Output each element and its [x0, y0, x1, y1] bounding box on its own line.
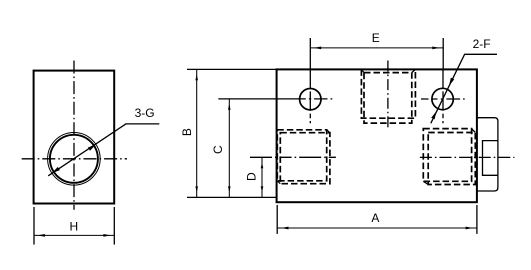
A extension line left: [276, 205, 278, 234]
block body outline (side view): [34, 71, 115, 204]
B dimension line: [196, 69, 198, 197]
side tab inner rectangle: [483, 141, 498, 176]
svg-text:B: B: [180, 128, 194, 136]
central port hidden rect outer: [361, 69, 415, 118]
lower-right port hidden rect B (offset): [428, 133, 475, 185]
svg-text:H: H: [69, 219, 78, 233]
vertical centerline (side view): [73, 61, 75, 210]
svg-text:D: D: [245, 172, 259, 181]
C dimension line: [228, 99, 230, 197]
svg-text:A: A: [371, 211, 379, 225]
D arrow top: [261, 162, 264, 168]
B arrow top: [195, 74, 198, 80]
D arrow bottom: [261, 186, 264, 192]
C arrow bottom: [228, 186, 231, 192]
B top extension line (top edge extended left): [187, 68, 277, 70]
svg-text:E: E: [372, 31, 380, 45]
A extension line right: [476, 205, 478, 234]
block body outline (front view): [277, 69, 477, 202]
svg-text:3-G: 3-G: [135, 106, 155, 120]
H arrow right: [103, 234, 111, 237]
E arrow right: [432, 47, 440, 50]
left circle horizontal centerline + C extension: [218, 98, 332, 100]
bottom reference extension line: [187, 196, 277, 198]
lower-left port corner connector: [277, 130, 330, 184]
C arrow top: [228, 104, 231, 110]
D dimension line: [261, 157, 263, 197]
horizontal centerline (side view): [22, 158, 127, 160]
svg-text:2-F: 2-F: [473, 37, 491, 51]
H arrow left: [37, 234, 45, 237]
lower-right port hidden rect A: [423, 129, 471, 182]
lower-left port horizontal centerline (with D extension): [250, 156, 336, 158]
lower-right port + tab horizontal centerline: [420, 156, 515, 158]
central port corner connectors: [361, 69, 415, 72]
central port hidden rect inner (offset): [364, 73, 412, 124]
A dimension line: [277, 227, 477, 229]
left top circle F: [300, 89, 321, 110]
H dimension line: [34, 234, 114, 236]
thread inner circle (minor dia, thick): [50, 135, 98, 183]
leader diameter line 3-G: [48, 124, 159, 176]
right top circle F: [432, 88, 453, 109]
2-F arrow lower (outside circle pointing up-right at edge): [431, 111, 436, 119]
E arrow left: [314, 47, 322, 50]
H extension line left: [33, 207, 35, 245]
right circle vertical centerline / E extension: [442, 38, 444, 69]
lower-left port hidden rect A: [277, 130, 326, 181]
left circle vertical centerline / E extension: [309, 38, 311, 69]
lower-left port hidden rect B (offset): [280, 133, 330, 184]
svg-text:C: C: [211, 145, 225, 154]
side tab outer profile: [477, 118, 498, 191]
arrowhead on inner circle upper-right (points up-right): [88, 144, 96, 150]
central port vertical centerline: [387, 61, 389, 128]
right circle horizontal centerline: [421, 98, 465, 100]
A arrow right: [466, 227, 474, 230]
B arrow bottom: [195, 186, 198, 192]
2-F arrow upper (outside circle pointing down-left at edge): [449, 78, 454, 86]
thread outer circle (major dia, thin): [48, 133, 101, 186]
2-F leader line: [431, 54, 497, 123]
H extension line right: [113, 207, 115, 245]
arrowhead on outer circle lower-left (points down-left): [52, 167, 60, 173]
A arrow left: [281, 227, 289, 230]
lower-right port corner connector: [423, 129, 475, 185]
E dimension line: [310, 47, 443, 49]
